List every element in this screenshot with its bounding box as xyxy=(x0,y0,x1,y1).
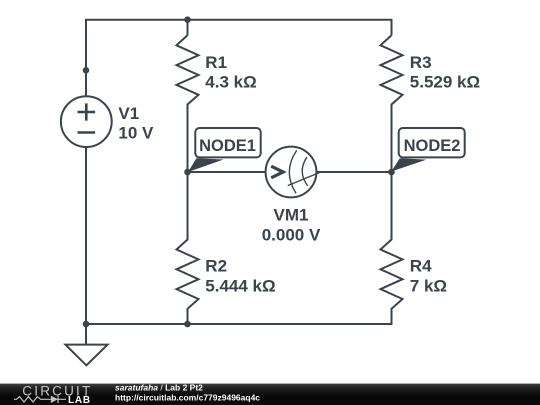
VM1 meter arc 1 xyxy=(289,150,296,193)
svg-text:5.529 kΩ: 5.529 kΩ xyxy=(410,72,480,91)
voltage source V1 body xyxy=(61,96,112,147)
svg-text:R3: R3 xyxy=(410,53,432,72)
ground xyxy=(65,345,107,366)
NODE1 flag box xyxy=(195,128,260,157)
wire VM1 right terminal to NODE2 xyxy=(316,171,391,173)
junction dot ground rail left xyxy=(83,321,90,328)
svg-text:R2: R2 xyxy=(205,256,227,275)
svg-text:R1: R1 xyxy=(205,53,227,72)
svg-text:R4: R4 xyxy=(410,256,432,275)
resistor R1 xyxy=(177,35,199,172)
svg-text:NODE1: NODE1 xyxy=(199,137,256,155)
CircuitLab logo diode xyxy=(51,396,58,403)
VM1 needle xyxy=(288,173,320,186)
svg-text:saratufaha / Lab 2 Pt2: saratufaha / Lab 2 Pt2 xyxy=(115,383,203,393)
V1 minus sign xyxy=(78,131,96,134)
wire R1 top stub xyxy=(187,20,189,36)
NODE2 flag pointer xyxy=(391,158,426,171)
svg-text:10 V: 10 V xyxy=(118,123,154,142)
svg-text:NODE2: NODE2 xyxy=(404,137,461,155)
junction dot top rail / R1 xyxy=(184,16,191,23)
junction dot NODE2 xyxy=(388,169,395,176)
svg-text:LAB: LAB xyxy=(68,395,91,405)
wire bottom rail (V1 bottom to ground rail to R4 bottom) xyxy=(86,147,392,324)
wire NODE1 to VM1 left terminal xyxy=(188,171,266,173)
junction dot above V1 xyxy=(83,67,90,74)
resistor R4 xyxy=(381,172,403,324)
svg-text:http://circuitlab.com/c779z949: http://circuitlab.com/c779z9496aq4c xyxy=(115,393,260,403)
svg-text:4.3 kΩ: 4.3 kΩ xyxy=(205,72,256,91)
NODE2 flag box xyxy=(399,128,465,157)
voltmeter VM1 body xyxy=(266,147,317,198)
svg-text:VM1: VM1 xyxy=(274,206,309,225)
CircuitLab logo resistor squiggle xyxy=(14,397,51,402)
resistor R3 xyxy=(381,35,403,172)
footer bar xyxy=(0,384,540,405)
resistor R2 xyxy=(177,172,199,324)
junction dot ground rail / R2 xyxy=(184,321,191,328)
svg-text:5.444 kΩ: 5.444 kΩ xyxy=(205,276,275,295)
wire top-left rail (V1 top to top rail to R3 top stub) xyxy=(86,20,392,97)
VM1 chevron xyxy=(271,166,283,178)
svg-text:0.000 V: 0.000 V xyxy=(262,225,321,244)
svg-text:7 kΩ: 7 kΩ xyxy=(410,276,447,295)
wire ground stub xyxy=(85,324,87,344)
junction dot NODE1 xyxy=(184,169,191,176)
V1 plus sign xyxy=(78,103,96,120)
VM1 meter arc 2 xyxy=(302,157,307,186)
NODE1 flag pointer xyxy=(188,158,224,172)
svg-text:V1: V1 xyxy=(118,104,139,123)
